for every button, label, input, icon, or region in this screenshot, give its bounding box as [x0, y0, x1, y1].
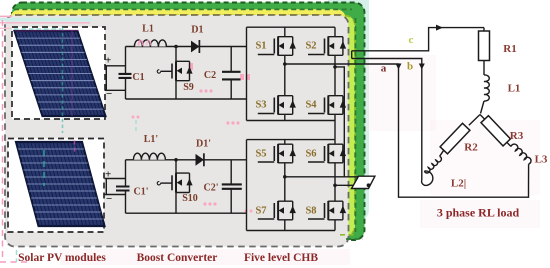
svg-text:−: − — [106, 193, 112, 205]
svg-text:D1': D1' — [196, 139, 211, 150]
svg-text:L1: L1 — [142, 24, 154, 35]
svg-text:C2: C2 — [204, 70, 216, 81]
svg-text:+: + — [105, 55, 111, 67]
svg-text:S3: S3 — [255, 100, 266, 111]
svg-text:a: a — [381, 63, 387, 75]
svg-text:Boost Converter: Boost Converter — [137, 252, 218, 264]
svg-text:−: − — [106, 88, 112, 100]
svg-text:C2': C2' — [204, 183, 219, 194]
svg-text:Solar PV modules: Solar PV modules — [18, 252, 106, 264]
svg-text:R3: R3 — [510, 130, 524, 142]
svg-text:D1: D1 — [191, 25, 203, 36]
svg-text:R1: R1 — [503, 43, 516, 55]
svg-text:S10: S10 — [182, 193, 198, 204]
svg-text:+: + — [105, 169, 111, 181]
svg-text:S2: S2 — [305, 41, 316, 52]
svg-text:S8: S8 — [305, 206, 316, 217]
svg-text:S4: S4 — [305, 100, 317, 111]
svg-text:C1': C1' — [134, 187, 149, 198]
svg-text:S9: S9 — [183, 82, 194, 93]
svg-text:S7: S7 — [255, 206, 266, 217]
svg-text:C1: C1 — [132, 72, 144, 83]
svg-text:c: c — [409, 34, 414, 46]
svg-text:S5: S5 — [255, 149, 266, 160]
svg-text:L1': L1' — [144, 134, 159, 145]
svg-text:S6: S6 — [305, 149, 316, 160]
svg-text:Five level CHB: Five level CHB — [244, 252, 318, 264]
svg-text:L3: L3 — [535, 154, 548, 166]
svg-text:L1: L1 — [508, 83, 521, 95]
svg-text:3 phase RL load: 3 phase RL load — [437, 206, 520, 220]
svg-text:R2: R2 — [464, 142, 478, 154]
svg-text:L2|: L2| — [451, 178, 466, 190]
svg-text:S1: S1 — [255, 41, 266, 52]
svg-text:b: b — [407, 61, 413, 73]
